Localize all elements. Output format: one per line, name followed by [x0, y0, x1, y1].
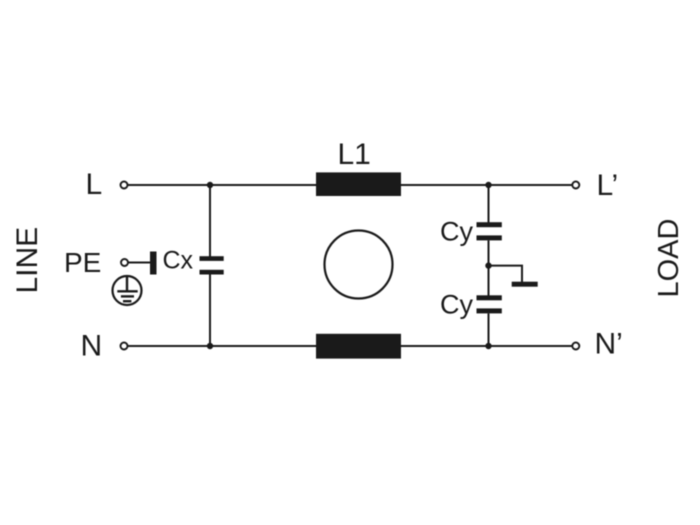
svg-text:LOAD: LOAD: [653, 219, 685, 298]
svg-text:N: N: [81, 329, 103, 362]
svg-text:L: L: [86, 168, 103, 201]
svg-text:Cy: Cy: [440, 290, 473, 320]
svg-text:Cx: Cx: [163, 246, 194, 274]
svg-text:N’: N’: [595, 328, 623, 361]
svg-text:Cy: Cy: [440, 217, 473, 247]
svg-text:L1: L1: [338, 138, 371, 171]
svg-text:L’: L’: [597, 169, 619, 202]
svg-text:PE: PE: [64, 247, 101, 278]
svg-text:LINE: LINE: [11, 227, 44, 294]
